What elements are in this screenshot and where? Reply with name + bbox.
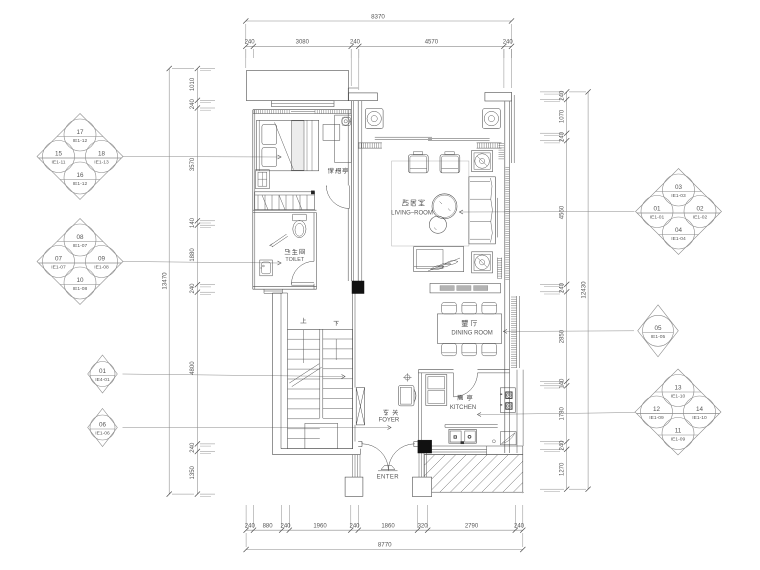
kitchen labels	[450, 395, 476, 411]
svg-text:12: 12	[653, 406, 661, 413]
grid line to marker cluster B	[123, 261, 281, 265]
svg-text:IE1-03: IE1-03	[671, 193, 686, 199]
svg-text:IE1-11: IE1-11	[51, 160, 65, 166]
grid line to marker 01	[123, 374, 346, 379]
svg-text:IE1-08: IE1-08	[73, 286, 88, 292]
svg-text:IE1-10: IE1-10	[671, 394, 686, 400]
svg-text:DINING ROOM: DINING ROOM	[451, 330, 492, 336]
balcony top-left	[247, 71, 378, 107]
svg-text:1880: 1880	[190, 248, 196, 262]
dining table	[437, 314, 501, 344]
entry door jambs and piers	[345, 442, 432, 497]
svg-text:IE1-09: IE1-09	[649, 415, 664, 421]
svg-text:880: 880	[263, 524, 274, 530]
svg-text:1010: 1010	[190, 77, 196, 91]
ENTER symbol	[377, 466, 400, 481]
kitchen north wall with door	[418, 370, 509, 397]
balcony planter right	[483, 109, 501, 129]
bedroom north window	[253, 110, 351, 114]
grid line to marker 05	[504, 329, 635, 333]
svg-text:1350: 1350	[190, 465, 196, 479]
marker cluster C 01-04	[636, 169, 722, 255]
svg-text:240: 240	[560, 282, 566, 293]
fridge	[426, 375, 447, 406]
svg-text:IE1-07: IE1-07	[73, 243, 88, 249]
stair direction labels	[300, 318, 338, 363]
bedroom door arc	[326, 186, 349, 209]
dining labels	[451, 320, 492, 336]
svg-text:12430: 12430	[581, 281, 588, 299]
svg-text:18: 18	[98, 151, 106, 158]
svg-text:IE1-08: IE1-08	[94, 265, 109, 271]
sofa	[469, 177, 498, 244]
svg-text:02: 02	[696, 206, 704, 213]
svg-text:240: 240	[350, 40, 361, 46]
svg-text:240: 240	[245, 40, 256, 46]
svg-text:8770: 8770	[378, 542, 392, 549]
living room labels	[391, 200, 433, 217]
terrace hatch	[424, 455, 524, 494]
grid line to marker cluster C	[460, 210, 635, 214]
svg-text:05: 05	[654, 325, 662, 332]
svg-text:240: 240	[503, 40, 514, 46]
kitchen counters	[445, 425, 498, 428]
svg-text:3570: 3570	[190, 157, 196, 171]
svg-text:16: 16	[76, 172, 84, 179]
corner cabinet	[500, 432, 516, 445]
bedroom west wall	[253, 110, 255, 290]
svg-text:TOILET: TOILET	[285, 257, 304, 263]
svg-text:07: 07	[55, 256, 63, 263]
svg-text:IE1-13: IE1-13	[94, 160, 109, 166]
toilet east wall	[314, 213, 317, 290]
svg-text:01: 01	[653, 206, 661, 213]
svg-text:4570: 4570	[425, 40, 439, 46]
svg-text:240: 240	[560, 440, 566, 451]
left dimension chain	[162, 66, 216, 497]
svg-text:IE1-09: IE1-09	[671, 437, 686, 443]
svg-text:ENTER: ENTER	[377, 475, 400, 481]
floor drain	[492, 440, 495, 443]
svg-text:240: 240	[245, 524, 256, 530]
bedroom wardrobe tall + washer	[335, 115, 352, 162]
svg-text:1270: 1270	[560, 462, 566, 476]
kitchen sink	[449, 429, 476, 443]
dining chairs	[442, 302, 497, 355]
svg-text:17: 17	[76, 129, 84, 136]
svg-text:IE1-06: IE1-06	[95, 431, 110, 437]
grid line to marker cluster D	[478, 413, 636, 417]
stove	[500, 388, 515, 413]
svg-text:KITCHEN: KITCHEN	[450, 405, 476, 411]
svg-text:13: 13	[674, 385, 682, 392]
elevator X-box	[356, 388, 364, 425]
svg-text:IE1-04: IE1-04	[671, 236, 686, 242]
svg-text:240: 240	[560, 90, 566, 101]
svg-text:240: 240	[190, 442, 196, 453]
svg-text:240: 240	[280, 524, 291, 530]
svg-text:IE1-12: IE1-12	[73, 181, 88, 187]
side table bottom-right	[472, 252, 493, 273]
svg-text:15: 15	[55, 151, 63, 158]
svg-text:1860: 1860	[381, 524, 395, 530]
chaise bench	[414, 247, 464, 272]
svg-text:IE4-01: IE4-01	[95, 377, 110, 383]
toilet sink	[260, 260, 273, 276]
svg-text:1960: 1960	[313, 524, 327, 530]
foyer chair	[399, 386, 417, 406]
svg-text:01: 01	[99, 368, 107, 375]
living room north wall with balcony door	[358, 137, 501, 148]
svg-text:8370: 8370	[371, 14, 385, 21]
side table top-right	[472, 151, 493, 172]
svg-text:240: 240	[514, 524, 525, 530]
stairwell walls	[273, 293, 361, 455]
right dimension chain	[540, 89, 591, 492]
svg-text:IE1-05: IE1-05	[651, 334, 666, 340]
marker 06	[88, 409, 118, 447]
svg-text:04: 04	[675, 227, 683, 234]
top dimension chain	[243, 14, 514, 91]
armchair 1	[408, 152, 428, 173]
svg-text:IE1-10: IE1-10	[692, 415, 707, 421]
svg-text:140: 140	[560, 378, 566, 389]
bed	[257, 120, 319, 171]
nanny room label	[328, 168, 330, 174]
svg-text:LIVING–ROOM: LIVING–ROOM	[391, 211, 433, 217]
svg-text:320: 320	[418, 524, 429, 530]
marker 01	[88, 355, 118, 393]
svg-text:240: 240	[190, 283, 196, 294]
svg-text:06: 06	[99, 422, 107, 429]
svg-text:13470: 13470	[162, 272, 169, 290]
wall bedroom/toilet	[253, 210, 317, 212]
entry double door	[362, 442, 415, 471]
svg-text:10: 10	[76, 277, 84, 284]
svg-text:14: 14	[696, 406, 704, 413]
black column B	[418, 440, 432, 453]
bottom dimension chain	[244, 505, 526, 552]
svg-text:IE1-02: IE1-02	[693, 215, 708, 221]
east windows hatch	[498, 144, 520, 369]
toilet fixture	[292, 214, 306, 237]
bedroom sliding wardrobe	[255, 191, 315, 210]
svg-text:IE1-12: IE1-12	[73, 138, 88, 144]
svg-text:FOYER: FOYER	[379, 417, 400, 423]
staircase	[288, 329, 353, 448]
grid line to marker cluster A	[123, 155, 281, 159]
east wall	[505, 101, 523, 453]
coffee table small	[429, 216, 446, 233]
svg-text:08: 08	[76, 234, 84, 241]
toilet labels	[285, 249, 305, 263]
bedroom cabinet	[256, 170, 270, 189]
svg-text:140: 140	[190, 217, 196, 228]
svg-text:4560: 4560	[560, 205, 566, 219]
bedroom east wall and shaft walls	[348, 88, 362, 281]
svg-text:3080: 3080	[296, 40, 310, 46]
svg-text:IE1-01: IE1-01	[650, 215, 665, 221]
bedroom desk	[323, 125, 340, 141]
foyer labels	[379, 410, 400, 424]
marker cluster D 11-14	[635, 369, 721, 455]
living room rug	[392, 161, 469, 246]
svg-text:240: 240	[190, 99, 196, 110]
black column A	[352, 281, 364, 294]
kitchen south wall / window sill	[424, 446, 523, 455]
svg-text:03: 03	[675, 184, 683, 191]
toilet south wall	[253, 287, 317, 294]
svg-text:1070: 1070	[560, 109, 566, 123]
grid line to marker 06	[123, 426, 392, 430]
shower partition	[270, 234, 288, 247]
svg-text:11: 11	[675, 428, 682, 435]
toilet door	[292, 261, 315, 285]
living room top-right wall	[485, 93, 514, 164]
svg-text:4800: 4800	[190, 361, 196, 375]
balcony planter left	[365, 109, 383, 129]
coffee table large	[432, 194, 457, 219]
armchair 2	[440, 152, 460, 173]
foyer ceiling light	[403, 373, 411, 381]
kitchen west wall	[418, 370, 421, 441]
dining/living divider sideboard	[430, 283, 501, 293]
marker 05	[638, 305, 679, 357]
svg-text:240: 240	[560, 131, 566, 142]
stair break line	[289, 364, 321, 387]
svg-text:2790: 2790	[465, 524, 479, 530]
svg-text:240: 240	[349, 524, 360, 530]
svg-text:IE1-07: IE1-07	[51, 265, 66, 271]
marker cluster B 07-10	[37, 219, 123, 305]
svg-text:09: 09	[98, 256, 106, 263]
marker cluster A 15-18	[37, 114, 123, 200]
